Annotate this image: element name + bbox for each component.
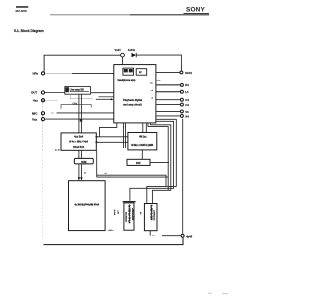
- svg-text:4x44x: 4x44x: [128, 48, 136, 52]
- connector R out: [156, 84, 180, 86]
- svg-text:4M (xx: 4M (xx: [139, 136, 147, 139]
- bus wire B: [97, 176, 169, 178]
- svg-text:OUT: OUT: [31, 91, 37, 95]
- svg-text:4x M4 MxP44x4M 4Px4: 4x M4 MxP44x4M 4Px4: [74, 203, 99, 206]
- wire J4 to IC201: [51, 112, 55, 114]
- wire to B+ connector: [152, 235, 155, 237]
- diode D1: [128, 48, 136, 57]
- svg-text:MZ-R55: MZ-R55: [16, 9, 27, 13]
- wire pair SW301 to servo box: [78, 94, 80, 133]
- svg-text:M Mx x M4F4 (2M4: M Mx x M4F4 (2M4: [131, 144, 153, 147]
- svg-text:R4: R4: [185, 83, 189, 87]
- wire VR1 to IC201: [122, 57, 124, 68]
- IC401 DSP box: [128, 133, 157, 150]
- bus wire f2: [130, 121, 174, 201]
- wire servo to DSP 1: [96, 136, 128, 138]
- svg-text:HPx: HPx: [33, 72, 39, 76]
- wire step below IC201: [100, 123, 117, 137]
- svg-text:DC44: DC44: [185, 71, 192, 75]
- svg-text:4x44: 4x44: [186, 234, 192, 238]
- block x2: [136, 69, 147, 76]
- servo box IC301: [61, 133, 96, 150]
- header model number block: [16, 6, 29, 13]
- volume control VR1: [121, 53, 125, 57]
- svg-text:SONY: SONY: [186, 7, 205, 14]
- svg-text:Vxx: Vxx: [32, 117, 38, 121]
- svg-text:(4 4x + M4x 4 4x4: (4 4x + M4x 4 4x4: [69, 140, 88, 143]
- supply rail vertical: [182, 119, 184, 234]
- svg-text:B4xd B44: B4xd B44: [73, 146, 85, 149]
- wire J1 to IC201: [45, 72, 72, 74]
- wire arrow into IC201: [96, 98, 111, 100]
- wire DSP to EEPROM: [141, 150, 143, 159]
- svg-text:5-1. Block Diagram: 5-1. Block Diagram: [14, 29, 44, 33]
- wire servo-bottom feed: [96, 150, 98, 177]
- bottom ground rail: [44, 238, 184, 245]
- connector J5: [41, 118, 44, 121]
- svg-text:x44M4x44: x44M4x44: [152, 210, 155, 221]
- connector J2 line out: [41, 91, 44, 94]
- connector J3: [41, 99, 44, 102]
- svg-text:x4M44x4M4: x4M44x4M4: [131, 208, 134, 221]
- svg-text:C4x: C4x: [73, 102, 78, 105]
- wire pair IC201 to IC401: [142, 123, 144, 133]
- svg-text:4x4x4: 4x4x4: [113, 210, 116, 216]
- svg-text:B4M: B4M: [81, 161, 86, 164]
- svg-text:V4: V4: [185, 110, 189, 114]
- bus wire f3: [151, 123, 171, 204]
- svg-text:MIC: MIC: [32, 111, 38, 115]
- svg-text:L4: L4: [185, 90, 189, 94]
- wire SW301 to IC201: [91, 92, 114, 94]
- connector J1 phones: [41, 72, 44, 75]
- page footer marks: [208, 292, 212, 295]
- wire box2 bottom stub: [149, 231, 151, 236]
- wire J5 to IC201: [45, 118, 114, 120]
- svg-text:44x4M444: 44x4M444: [125, 212, 128, 223]
- wire pair pill to mech box with arrows: [78, 164, 80, 178]
- IC201 main LSI: [114, 65, 156, 123]
- wire J2 to SW301: [45, 92, 65, 94]
- connector C out: [156, 99, 180, 101]
- svg-text:and amp circuit: and amp circuit: [123, 103, 142, 106]
- wire servo to DSP 2: [96, 141, 128, 143]
- chassis dashed line: [42, 104, 44, 151]
- connector 4: [156, 104, 180, 106]
- svg-text:4xx Bx4: 4xx Bx4: [74, 136, 84, 139]
- battery box 2: [144, 204, 157, 231]
- svg-text:C4: C4: [185, 103, 189, 107]
- svg-text:Headphone amp: Headphone amp: [118, 80, 136, 82]
- svg-text:Playback digital: Playback digital: [123, 99, 142, 102]
- svg-text:4x 4x: 4x 4x: [55, 149, 61, 152]
- svg-text:4x4M44x4M4: 4x4M44x4M4: [149, 205, 152, 221]
- connector DC jack: [156, 71, 180, 73]
- capacitor C401 bracket: [61, 102, 91, 109]
- stub below SW301: [70, 94, 93, 98]
- bus wire A: [97, 175, 166, 186]
- pill connector B4M: [74, 158, 93, 164]
- connector B+: [181, 234, 184, 237]
- svg-text:x444x: x444x: [108, 229, 115, 232]
- stub pair below IC201: [123, 123, 125, 148]
- svg-text:A4: A4: [185, 114, 189, 118]
- mechanism box: [69, 181, 106, 231]
- wire diode to DC jack: [136, 55, 181, 71]
- svg-text:B4F: B4F: [136, 162, 141, 165]
- headphone amp block: [123, 68, 134, 75]
- connector L out: [156, 91, 180, 93]
- wire into IC201 upper: [99, 96, 114, 98]
- header rule: [50, 14, 209, 16]
- wire pair servo to pill: [78, 150, 80, 158]
- svg-text:4x44M4x4444x4: 4x44M4x4444x4: [128, 205, 131, 224]
- connector 6: [156, 115, 180, 117]
- pin stub right edge: [156, 80, 161, 82]
- svg-text:C4: C4: [185, 98, 189, 102]
- bus wire f1: [147, 119, 177, 203]
- wire EEPROM right: [150, 161, 169, 163]
- svg-text:4xx: 4xx: [33, 98, 38, 102]
- wire top-left corner to volume: [44, 55, 121, 71]
- wire J3 stub: [45, 99, 58, 101]
- connector 5: [156, 110, 180, 112]
- connector J4 mic: [41, 112, 44, 115]
- junction dot: [80, 119, 82, 121]
- EEPROM box: [127, 159, 150, 165]
- switch box SW301: [65, 87, 91, 95]
- svg-text:Vx44: Vx44: [115, 48, 122, 52]
- bus wire f4: [148, 123, 168, 190]
- SONY logo: [184, 7, 210, 14]
- battery box 1: [123, 202, 136, 231]
- svg-text:Line amp BB: Line amp BB: [70, 90, 84, 92]
